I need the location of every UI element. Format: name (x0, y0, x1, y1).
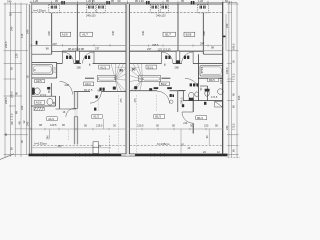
dashed vline A1.4 (68, 130, 70, 141)
skylight A2 glyphs (88, 6, 94, 9)
dark glyph pair below A band (100, 88, 105, 91)
door B left arc (161, 52, 173, 64)
radiator A hatched (34, 107, 44, 110)
sink B2 circle (218, 89, 224, 95)
hall north wall A jog (32, 51, 126, 54)
wc B west wall (182, 91, 184, 101)
party wall junction notch in bottom wall (121, 154, 135, 156)
boxed 90 label right of party wall (130, 67, 140, 71)
building left wall (29, 4, 32, 154)
window ticks bottom wall far left (44, 153, 47, 156)
hall dim text A row2 (68, 45, 214, 51)
roof height dashed line top (31, 12, 223, 14)
room label B1.4 (196, 116, 207, 120)
extension line B bottom (180, 129, 182, 154)
extension line B bottom 2 (208, 129, 210, 145)
dashed line in A1.3 (98, 95, 100, 111)
specks near B1.2 door (170, 94, 174, 97)
marks near B wall (182, 102, 207, 107)
room label B1.2 (160, 82, 170, 86)
room label B1.1 (146, 65, 157, 69)
dashed line in B1.3 (155, 95, 157, 111)
top dimension text specks (33, 0, 228, 3)
bottom-left corner diagonal mark (0, 154, 14, 160)
tick on right wall (223, 36, 226, 38)
wall A y109 (56, 108, 77, 110)
hall dim text A row1 (46, 41, 205, 50)
bottom rooms dim text row (39, 123, 218, 128)
bathroom A south wall (32, 77, 57, 79)
hall north wall B jog (130, 51, 223, 54)
stairs A lower flight band (97, 76, 115, 82)
hall south wall B segments (130, 63, 223, 65)
wall B between B1.7 and B1.8 (177, 4, 179, 51)
text specks B1.2 (154, 87, 172, 89)
right dimension ticks (227, 4, 239, 155)
skylight dashed box B3 (198, 5, 209, 13)
room label B1.5 (208, 78, 219, 82)
wc A south wall (32, 95, 56, 97)
toilet B (189, 92, 194, 100)
door stub A dark base (76, 60, 80, 63)
niche wall A (55, 96, 57, 106)
niche wall A second (59, 96, 61, 109)
bath B west wall (197, 54, 199, 100)
room label A1.7 (80, 32, 93, 36)
small circle fixture B1.3 (170, 100, 173, 103)
left rotated dimension text specks (4, 26, 29, 150)
bathtub B inner (201, 67, 221, 75)
door size glyphs B wc (190, 83, 199, 86)
party wall (126, 4, 130, 156)
toilet A (32, 88, 40, 95)
door arc A1.2 to A1.3 (90, 92, 101, 103)
wall A between A1.8 and A1.7 (76, 4, 78, 51)
skylight dashed box B1 (150, 5, 158, 13)
skylight dashed box A2 (87, 5, 95, 13)
boxed 90 label left of party wall (116, 67, 126, 72)
extension line left bottom (49, 129, 51, 139)
door B left glyphs (165, 56, 170, 59)
rotated specks left col y122 (10, 120, 26, 125)
room label A1.2 (84, 82, 94, 86)
hall dimension ticks A (31, 44, 223, 47)
dashed line near party wall A (118, 95, 120, 153)
door stub B (176, 51, 180, 64)
door B right glyphs (184, 56, 189, 59)
room label A1.4 (47, 117, 57, 121)
extension line near right wall (225, 14, 227, 51)
dark tick on dim line A (36, 41, 38, 45)
building right wall (222, 3, 224, 154)
stairs A winder fan (111, 64, 126, 91)
wall east of B1.3 (177, 91, 179, 112)
skylight B2 glyphs (162, 6, 168, 9)
skylight dashed box A1 (49, 5, 60, 13)
skylight dashed box B2 (160, 5, 168, 13)
window ticks bottom wall right (151, 153, 165, 156)
door arc wc A to room (60, 81, 73, 94)
dark mark on B fan (134, 86, 137, 89)
wall A y106 (31, 105, 56, 107)
room label B1.8 (184, 32, 195, 36)
wall B1.2 south (130, 90, 184, 92)
mark near A1.3 (94, 108, 96, 111)
left dimension column lines (5, 3, 27, 158)
wall B1.3/B1.4 (192, 101, 194, 134)
wall under stairs B (161, 77, 170, 79)
chimney block bottom center (93, 142, 99, 154)
wall tick at x90 (90, 64, 165, 66)
door B right leaf (192, 52, 194, 64)
vertical dashed extension (109, 135, 111, 153)
roof height dashed line bottom (33, 145, 222, 147)
knee wall line bottom A (32, 147, 111, 149)
hall dimension line A (31, 44, 223, 46)
room label B1.7 (163, 32, 176, 36)
room label A1.1 (99, 65, 110, 69)
top dimension ticks (31, 1, 230, 5)
wall A1.2/A1.3 segments (74, 90, 126, 92)
wall B mid vertical (206, 86, 208, 101)
right column extra text (225, 23, 241, 152)
skylight dashed box A3 (97, 5, 105, 13)
small fixture mark A1.2 (95, 95, 97, 98)
door arc B1.4 (182, 112, 193, 123)
wall A left of A1.7 below skylight (51, 13, 53, 54)
tub A faucet (34, 69, 36, 71)
wall under stairs A (85, 77, 94, 79)
door A right glyphs (85, 56, 90, 59)
bathroom A east wall (56, 62, 58, 78)
skylight B1 glyphs (152, 6, 158, 9)
skylight B3 glyphs (200, 6, 206, 9)
toilet B2 (205, 89, 209, 96)
right rotated dimension text specks (225, 43, 236, 130)
door stub B dark base (176, 60, 180, 63)
door A right arc (83, 52, 95, 64)
top dimension line (30, 1, 238, 3)
dark mark on A fan (113, 87, 116, 90)
hall dimension line B (62, 50, 223, 52)
bathtub B (200, 66, 223, 76)
stairs B winder fan (130, 64, 143, 91)
room label A1.3 (92, 115, 102, 119)
wc B north wall stub (179, 90, 186, 92)
shower B corner (215, 101, 223, 107)
extension below A1.3 label (103, 119, 105, 129)
stairs B lower flight band (139, 76, 161, 82)
bottom-right dashed mark (228, 157, 241, 159)
skylight A3 glyphs (98, 6, 104, 9)
door B left leaf (160, 52, 162, 64)
window ticks bottom wall left (76, 153, 110, 156)
door A right leaf (93, 52, 95, 64)
dark mark near B wall (149, 88, 152, 90)
right column extra ticks (227, 13, 239, 146)
bottom rooms dim line (31, 128, 223, 130)
bottom rooms dim ticks (15, 128, 223, 130)
skylight A1 glyphs (51, 6, 57, 9)
room label A1.8 (61, 32, 71, 36)
bath B south wall (198, 77, 222, 79)
door A left leaf (61, 52, 63, 64)
door stub A (76, 51, 80, 64)
door arc into B wc (185, 78, 198, 87)
building top eave wall (31, 3, 223, 5)
wall B mid horiz (200, 85, 207, 87)
wall A1.3/A1.4 double (74, 92, 78, 144)
door arc A1.4 (66, 108, 75, 117)
right dimension column lines (229, 1, 237, 158)
room label A1.5 (35, 79, 45, 83)
room label B1.3 (154, 115, 165, 119)
wc B south wall (183, 100, 223, 102)
subtle scan noise (0, 0, 1, 1)
wc A marks near wall (47, 87, 50, 90)
wc A east wall (50, 83, 52, 96)
dashed line near party wall B (135, 95, 137, 153)
building bottom thick wall (29, 154, 228, 157)
door arc B1.2 to B1.3 (157, 91, 169, 103)
door leaf B1.4 (182, 111, 193, 113)
door A left arc (62, 52, 74, 64)
door B right arc (182, 52, 194, 64)
sink A (47, 99, 53, 106)
window tick marks on top dim line (61, 1, 194, 5)
left dimension ticks (4, 4, 28, 155)
hall south wall A segments (32, 63, 126, 64)
room label A1.6 (35, 100, 45, 104)
bathtub A (32, 65, 53, 75)
door A left glyphs (66, 56, 71, 59)
sink B (195, 92, 199, 97)
bathtub A inner (33, 66, 51, 73)
wall B below skylight B3 (202, 13, 204, 54)
